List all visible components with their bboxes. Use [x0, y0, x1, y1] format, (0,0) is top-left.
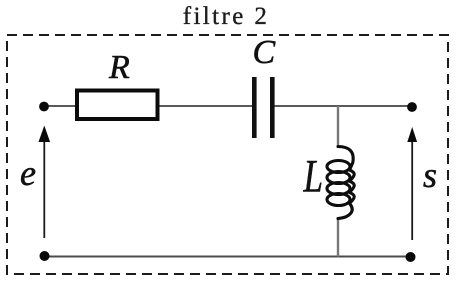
- svg-text:e: e: [20, 153, 36, 193]
- svg-text:R: R: [108, 49, 130, 86]
- svg-text:C: C: [253, 34, 276, 71]
- svg-text:filtre 2: filtre 2: [183, 3, 270, 30]
- svg-text:s: s: [423, 155, 437, 195]
- svg-text:L: L: [303, 151, 323, 203]
